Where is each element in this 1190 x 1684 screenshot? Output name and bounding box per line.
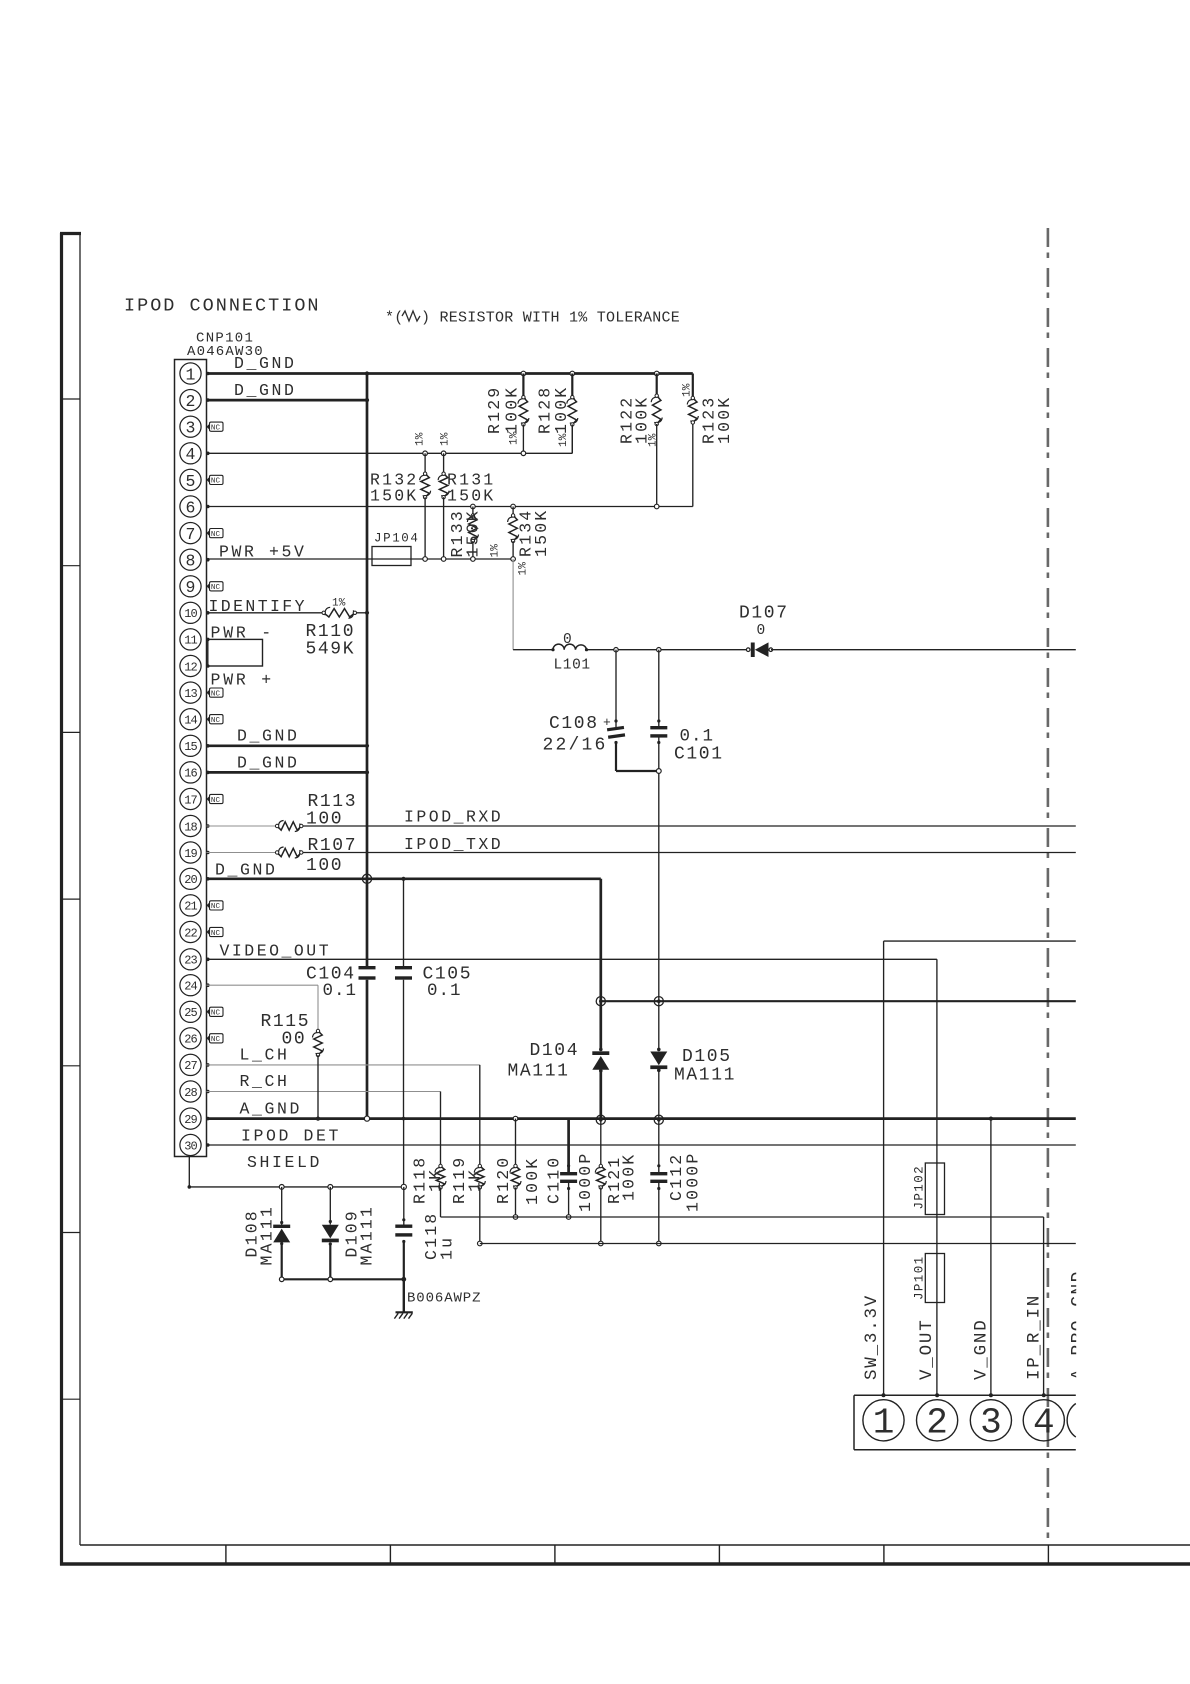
- wire pin16 D_GND: [207, 770, 370, 774]
- svg-text:NC: NC: [211, 478, 221, 486]
- capacitor C104: [359, 966, 376, 980]
- label IPOD_TXD: [404, 835, 503, 854]
- svg-text:1%: 1%: [332, 598, 346, 610]
- resistor R118: [435, 1164, 446, 1217]
- label R120 100K: [494, 1156, 542, 1205]
- pin 29 terminal: [206, 1117, 210, 1121]
- wire pin6: [207, 423, 693, 507]
- label R133 150K: [448, 509, 483, 557]
- svg-text:2: 2: [186, 392, 196, 411]
- NC flag pin 5: [207, 475, 224, 485]
- svg-text:D_GND: D_GND: [237, 754, 300, 773]
- svg-text:100K: 100K: [552, 386, 571, 434]
- svg-text:1%: 1%: [439, 432, 451, 446]
- svg-text:16: 16: [184, 767, 197, 781]
- label CNP101: [196, 331, 254, 347]
- svg-text:4: 4: [1033, 1403, 1055, 1444]
- label R_CH: [240, 1072, 290, 1091]
- svg-text:D105: D105: [682, 1047, 732, 1067]
- label 0 D107: [757, 623, 766, 639]
- label V_OUT: [917, 1318, 937, 1380]
- label PWR +: [211, 671, 275, 690]
- NC flag pin 17: [207, 794, 224, 804]
- NC flag pin 9: [207, 582, 224, 592]
- label D107: [739, 604, 789, 624]
- wire pin18 stub: [207, 825, 278, 827]
- svg-text:1%: 1%: [414, 432, 426, 446]
- svg-text:R_CH: R_CH: [240, 1072, 290, 1091]
- svg-text:NC: NC: [211, 930, 221, 938]
- svg-text:PWR +: PWR +: [211, 671, 275, 690]
- label V_GND: [972, 1318, 992, 1380]
- jumper JP101: [925, 1254, 944, 1303]
- svg-text:0.1: 0.1: [323, 981, 358, 1001]
- junction shield C118: [401, 1184, 406, 1189]
- svg-text:1%: 1%: [509, 431, 521, 445]
- connector CNP101: [175, 360, 207, 1157]
- resistor R122: [651, 371, 662, 509]
- svg-text:17: 17: [184, 793, 197, 807]
- svg-text:NC: NC: [211, 797, 221, 805]
- label 1% R129: [509, 431, 521, 445]
- label D_GND pin20: [215, 860, 278, 879]
- diode D109: [322, 1187, 339, 1279]
- svg-text:V_GND: V_GND: [972, 1318, 992, 1380]
- pin 2 terminal: [206, 398, 210, 402]
- svg-text:D107: D107: [739, 604, 789, 624]
- svg-text:25: 25: [184, 1006, 197, 1020]
- svg-text:100K: 100K: [620, 1153, 639, 1201]
- svg-text:18: 18: [184, 820, 197, 834]
- svg-text:C110: C110: [545, 1156, 564, 1204]
- svg-text:0.1: 0.1: [680, 727, 715, 747]
- pin 27 terminal: [206, 1063, 210, 1067]
- wire V_OUT: [936, 959, 938, 1395]
- note resistor tolerance: [385, 310, 680, 327]
- pin 16 terminal: [206, 771, 210, 775]
- wire to ground: [403, 1279, 405, 1311]
- diode D107: [746, 642, 772, 657]
- label VIDEO_OUT: [220, 941, 332, 960]
- junction D104 line: [596, 997, 605, 1006]
- svg-text:NC: NC: [211, 903, 221, 911]
- svg-text:150K: 150K: [447, 487, 495, 506]
- label IPOD_RXD: [404, 808, 503, 827]
- capacitor C105: [395, 879, 412, 1121]
- svg-text:NC: NC: [211, 1036, 221, 1044]
- svg-text:150K: 150K: [370, 487, 418, 506]
- label JP104: [374, 532, 420, 546]
- label A046AW30: [187, 344, 264, 360]
- label A_GND: [240, 1099, 303, 1118]
- pin 10 terminal: [206, 611, 210, 615]
- label C118 1u: [422, 1212, 457, 1260]
- svg-text:23: 23: [184, 954, 197, 968]
- NC flag pin 14: [207, 715, 224, 725]
- label SW_3.3V: [862, 1294, 882, 1380]
- wire PWR tap to L101: [513, 559, 553, 650]
- wire pin20 down: [599, 879, 602, 1001]
- wire pin20 D_GND: [207, 877, 601, 880]
- svg-text:5: 5: [186, 472, 196, 491]
- junction bus pin20: [362, 874, 371, 883]
- svg-text:29: 29: [184, 1113, 197, 1127]
- NC flag pin 25: [207, 1007, 224, 1017]
- wire pin2 D_GND: [207, 398, 370, 402]
- label C112 1000P: [667, 1151, 703, 1212]
- svg-text:D_GND: D_GND: [237, 727, 300, 746]
- pin 24 terminal: [206, 983, 210, 987]
- resistor R128: [567, 371, 578, 453]
- svg-text:1%: 1%: [682, 383, 694, 397]
- wire pin30 IPOD DET: [207, 1144, 1076, 1146]
- wire pin8 PWR +5V: [207, 558, 514, 560]
- svg-text:B006AWPZ: B006AWPZ: [407, 1291, 481, 1307]
- svg-text:27: 27: [184, 1059, 197, 1073]
- label L_CH: [240, 1046, 290, 1065]
- svg-text:14: 14: [184, 714, 197, 728]
- svg-text:D_GND: D_GND: [234, 354, 297, 373]
- label R118 1K: [411, 1156, 446, 1204]
- svg-text:1: 1: [873, 1403, 895, 1444]
- label C105 0.1: [423, 965, 473, 1002]
- svg-text:) RESISTOR WITH 1% TOLERANCE: ) RESISTOR WITH 1% TOLERANCE: [421, 310, 680, 327]
- resistor R110: [322, 607, 357, 618]
- label 1% R131: [439, 432, 451, 446]
- pin 30 terminal: [206, 1143, 210, 1147]
- label D_GND pin1: [234, 354, 297, 373]
- svg-text:MA111: MA111: [508, 1062, 570, 1082]
- wire net B rail: [480, 1243, 1076, 1245]
- svg-text:100: 100: [306, 810, 343, 830]
- label R119 1K: [450, 1156, 485, 1204]
- NC flag pin 7: [207, 529, 224, 539]
- svg-text:NC: NC: [211, 690, 221, 698]
- svg-text:IP_R_IN: IP_R_IN: [1025, 1294, 1045, 1380]
- svg-text:11: 11: [184, 634, 197, 648]
- label D105 MA111: [674, 1047, 736, 1086]
- NC flag pin 26: [207, 1034, 224, 1044]
- svg-text:6: 6: [186, 498, 196, 517]
- svg-text:00: 00: [282, 1030, 307, 1050]
- resistor R129: [518, 371, 529, 455]
- label R134 150K: [517, 509, 552, 557]
- junction C105 pin20: [401, 877, 405, 881]
- svg-text:4: 4: [186, 445, 196, 464]
- wire L_CH down: [479, 1065, 481, 1166]
- label D_GND pin16: [237, 754, 300, 773]
- NC flag pin 3: [207, 422, 224, 432]
- label R113 100: [306, 792, 357, 830]
- wire net A rail: [441, 1217, 1044, 1395]
- wire L101 to D107: [587, 648, 749, 652]
- resistor R123: [687, 374, 698, 425]
- inductor L101: [551, 644, 588, 651]
- label L101: [554, 658, 591, 674]
- svg-text:8: 8: [186, 552, 196, 571]
- svg-text:NC: NC: [211, 717, 221, 725]
- wire pin19 stub: [207, 852, 278, 854]
- junction C101 line: [654, 997, 663, 1006]
- svg-text:VIDEO_OUT: VIDEO_OUT: [220, 941, 332, 960]
- svg-text:C101: C101: [674, 745, 724, 765]
- svg-text:1K: 1K: [426, 1168, 445, 1192]
- pin 4 terminal: [206, 452, 210, 456]
- wire IPOD_RXD: [301, 825, 1076, 827]
- label 1% R134: [518, 562, 530, 576]
- svg-text:C108: C108: [549, 714, 599, 734]
- sheet boundary line: [1047, 228, 1050, 1545]
- resistor R131: [438, 451, 449, 561]
- pin 23 terminal: [206, 958, 210, 962]
- label D109 MA111: [343, 1205, 377, 1266]
- label B006AWPZ: [407, 1291, 481, 1307]
- NC flag pin 21: [207, 901, 224, 911]
- label 1% R128: [558, 433, 570, 447]
- label R128 100K: [536, 386, 572, 434]
- svg-text:V_OUT: V_OUT: [917, 1318, 937, 1380]
- svg-text:30: 30: [184, 1139, 197, 1153]
- label R131 150K: [447, 471, 495, 506]
- label 1% R123: [682, 383, 694, 397]
- jumper JP104: [372, 547, 411, 566]
- wire pin4: [207, 425, 573, 454]
- resistor R133: [467, 504, 478, 561]
- svg-text:IPOD_RXD: IPOD_RXD: [404, 808, 503, 827]
- svg-text:100K: 100K: [523, 1157, 542, 1205]
- svg-text:24: 24: [184, 980, 197, 994]
- wire pin27 L_CH: [207, 1064, 480, 1066]
- svg-text:IPOD_TXD: IPOD_TXD: [404, 835, 503, 854]
- svg-text:L101: L101: [554, 658, 591, 674]
- label C108 22/16: [543, 714, 608, 756]
- junction bus A_GND: [364, 1116, 369, 1121]
- label D104 MA111: [508, 1041, 580, 1082]
- svg-text:1%: 1%: [490, 544, 502, 558]
- diode D105: [650, 1001, 667, 1120]
- junction D105 A_GND: [654, 1115, 663, 1124]
- label C110 1000P: [545, 1151, 596, 1212]
- label D_GND pin2: [234, 381, 297, 400]
- svg-text:19: 19: [184, 847, 197, 861]
- svg-text:JP102: JP102: [913, 1165, 927, 1210]
- svg-text:28: 28: [184, 1086, 197, 1100]
- svg-text:IPOD DET: IPOD DET: [241, 1127, 341, 1146]
- diode D108: [273, 1187, 290, 1279]
- svg-text:1%: 1%: [518, 562, 530, 576]
- svg-text:D_GND: D_GND: [234, 381, 297, 400]
- svg-text:100: 100: [306, 856, 343, 876]
- diode D104: [592, 1001, 609, 1120]
- wire SW_3.3V: [884, 941, 1076, 1395]
- pin 20 terminal: [206, 877, 210, 881]
- svg-text:12: 12: [184, 660, 197, 674]
- svg-text:0.1: 0.1: [427, 981, 462, 1001]
- label R122 100K: [618, 396, 652, 444]
- svg-text:JP101: JP101: [913, 1255, 927, 1300]
- wire diode common rail: [279, 1277, 406, 1282]
- svg-text:1u: 1u: [438, 1236, 457, 1260]
- svg-text:NC: NC: [211, 531, 221, 539]
- svg-text:7: 7: [186, 525, 196, 544]
- svg-text:3: 3: [980, 1403, 1002, 1444]
- capacitor C110: [560, 1119, 577, 1220]
- svg-text:*(: *(: [385, 310, 403, 327]
- wire pin15 D_GND: [207, 744, 370, 748]
- connector bottom header: [854, 1393, 1076, 1449]
- title IPOD CONNECTION: [124, 296, 321, 317]
- junction shield D109: [328, 1185, 333, 1190]
- wire pin10 IDENTIFY: [207, 611, 370, 615]
- resistor R121: [595, 1120, 606, 1246]
- svg-text:R107: R107: [308, 836, 358, 856]
- svg-text:100K: 100K: [715, 396, 734, 444]
- svg-text:MA111: MA111: [674, 1066, 736, 1086]
- label 0 L101: [563, 632, 572, 648]
- label PWR +5V: [219, 543, 307, 562]
- svg-text:NC: NC: [211, 1010, 221, 1018]
- svg-text:NC: NC: [211, 584, 221, 592]
- svg-text:IPOD CONNECTION: IPOD CONNECTION: [124, 296, 321, 317]
- wire pin28 R_CH: [207, 1091, 441, 1093]
- svg-text:SHIELD: SHIELD: [247, 1153, 322, 1172]
- svg-text:26: 26: [184, 1033, 197, 1047]
- wire pin24: [207, 985, 319, 1031]
- pin 1 terminal: [206, 372, 210, 376]
- label R123 100K: [700, 396, 735, 444]
- NC flag pin 22: [207, 927, 224, 937]
- svg-text:9: 9: [186, 578, 196, 597]
- junction shield D108: [279, 1185, 284, 1190]
- label R121 100K: [605, 1153, 639, 1204]
- pin 28 terminal: [206, 1090, 210, 1094]
- svg-text:150K: 150K: [464, 509, 483, 557]
- svg-text:JP104: JP104: [374, 532, 420, 546]
- label A_PRO_GND clipped: [1069, 1270, 1089, 1380]
- wire R_CH down: [440, 1092, 442, 1167]
- svg-text:R129: R129: [485, 386, 504, 434]
- svg-text:A_GND: A_GND: [240, 1099, 303, 1118]
- wire shield: [188, 1157, 404, 1189]
- svg-text:1%: 1%: [648, 433, 660, 447]
- pin 8 terminal: [206, 558, 210, 562]
- label 1% R132: [414, 432, 426, 446]
- wire pin1 D_GND: [207, 372, 693, 375]
- label C104 0.1: [306, 965, 357, 1002]
- label JP101: [913, 1255, 927, 1300]
- svg-text:15: 15: [184, 740, 197, 754]
- svg-text:3: 3: [186, 419, 196, 438]
- label 1% R133: [490, 544, 502, 558]
- resistor R134: [508, 504, 519, 561]
- svg-text:2: 2: [926, 1403, 948, 1444]
- label 1% R110: [332, 598, 346, 610]
- svg-text:0: 0: [563, 632, 572, 648]
- label R132 150K: [370, 471, 418, 506]
- label 1% R122: [648, 433, 660, 447]
- svg-text:SW_3.3V: SW_3.3V: [862, 1294, 882, 1380]
- pin 12 terminal: [206, 664, 210, 668]
- svg-text:10: 10: [184, 607, 197, 621]
- label IPOD DET: [241, 1127, 341, 1146]
- label D108 MA111: [243, 1205, 277, 1266]
- component box pins 11-12: [208, 639, 263, 666]
- svg-text:0: 0: [757, 623, 766, 639]
- NC flag pin 13: [207, 688, 224, 698]
- jumper JP102: [925, 1163, 944, 1215]
- capacitor C118: [395, 1187, 412, 1279]
- label 0.1 C101: [674, 727, 724, 765]
- svg-text:22/16: 22/16: [543, 736, 608, 756]
- wire A_GND to shield column: [403, 1119, 405, 1187]
- svg-text:1000P: 1000P: [684, 1151, 703, 1212]
- capacitor C108: [607, 650, 659, 771]
- label R115 00: [261, 1012, 311, 1050]
- resistor R119: [474, 1164, 485, 1245]
- label IP_R_IN: [1025, 1294, 1045, 1380]
- svg-text:1%: 1%: [558, 433, 570, 447]
- pin 19 terminal: [206, 851, 210, 855]
- capacitor C112: [650, 1120, 667, 1246]
- pin 18 terminal: [206, 824, 210, 828]
- svg-text:D_GND: D_GND: [215, 860, 278, 879]
- svg-text:MA111: MA111: [258, 1205, 277, 1266]
- label R110 549K: [306, 622, 356, 660]
- label SHIELD: [247, 1153, 322, 1172]
- svg-text:NC: NC: [211, 425, 221, 433]
- svg-text:MA111: MA111: [358, 1205, 377, 1266]
- pin 11 terminal: [206, 638, 210, 642]
- wire pin29 A_GND: [207, 1117, 1076, 1120]
- svg-text:549K: 549K: [306, 640, 356, 660]
- resistor R107: [275, 847, 303, 858]
- svg-text:+: +: [603, 715, 611, 730]
- capacitor C101: [650, 650, 667, 1002]
- junction D104 A_GND: [596, 1115, 605, 1124]
- label R107 100: [306, 836, 357, 876]
- svg-text:1: 1: [186, 365, 196, 384]
- resistor R132: [420, 451, 431, 561]
- label D_GND pin15: [237, 727, 300, 746]
- pin 15 terminal: [206, 744, 210, 748]
- resistor R113: [275, 821, 303, 832]
- pin 6 terminal: [206, 505, 210, 509]
- wire IPOD_TXD: [301, 852, 1076, 854]
- svg-text:21: 21: [184, 900, 197, 914]
- resistor R115: [313, 1029, 324, 1120]
- ground: [394, 1312, 412, 1318]
- label C108 plus: [603, 715, 611, 730]
- svg-text:150K: 150K: [532, 509, 551, 557]
- label PWR -: [211, 624, 275, 643]
- svg-text:20: 20: [184, 873, 197, 887]
- wire pin23 VIDEO_OUT: [207, 958, 937, 960]
- svg-text:D104: D104: [530, 1041, 580, 1061]
- label JP102: [913, 1165, 927, 1210]
- svg-text:1K: 1K: [466, 1168, 485, 1192]
- wire D104 anode line: [601, 1000, 1076, 1002]
- svg-text:100K: 100K: [503, 386, 522, 434]
- svg-text:1000P: 1000P: [576, 1151, 595, 1212]
- label R129 100K: [485, 386, 522, 434]
- svg-text:22: 22: [184, 926, 197, 940]
- svg-text:R120: R120: [494, 1156, 513, 1204]
- wire D107 to edge: [771, 649, 1076, 651]
- wire V_GND: [989, 1117, 993, 1396]
- resistor R120: [510, 1116, 521, 1219]
- svg-text:13: 13: [184, 687, 197, 701]
- wire D_GND bus vertical: [365, 371, 369, 1118]
